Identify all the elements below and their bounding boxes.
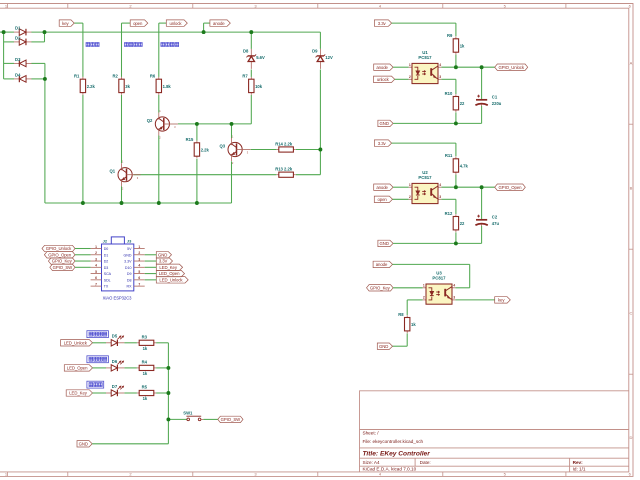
svg-text:R8: R8 [398,312,404,317]
svg-text:1: 1 [409,183,411,187]
svg-text:GND: GND [79,441,88,446]
diode D3 [14,62,19,64]
svg-text:GND: GND [158,252,167,257]
svg-text:LED_Key: LED_Key [69,391,88,396]
global label GND LED section [77,441,92,447]
svg-text:1k: 1k [143,396,148,401]
wire C2 top [481,187,483,219]
svg-text:D9: D9 [127,272,132,276]
svg-text:1: 1 [138,245,140,249]
resistor R2 3k [121,77,123,79]
svg-text:1: 1 [409,63,411,67]
global label LED_Open [64,365,92,371]
svg-text:5: 5 [138,270,140,274]
svg-text:220u: 220u [492,101,502,106]
resistor R14 2.2k [277,149,279,151]
wire Q1 base row to R13 [133,174,276,176]
svg-text:2: 2 [95,251,97,255]
svg-text:SCA: SCA [104,272,112,276]
wire LED_Key to D7 [93,392,107,394]
wire U3 pin3 to key [455,299,494,301]
resistor R9 1k [455,37,457,39]
junction dots left section [2,30,323,205]
svg-text:4: 4 [439,63,441,67]
wire D8 to R7 [250,70,252,77]
svg-text:D3: D3 [104,266,109,270]
wire Q1 emitter to rail [121,186,123,203]
svg-text:key: key [62,21,69,26]
wire R5 to bus [156,392,168,394]
wire rail corner to D9 [319,32,321,49]
svg-text:Rev:: Rev: [573,460,584,465]
svg-text:SW1: SW1 [183,410,193,415]
svg-text:47u: 47u [492,221,500,226]
resistor R12 22 [455,214,457,216]
wire R1 to rail [82,95,84,203]
global label anode U1 [374,64,393,70]
svg-text:PC817: PC817 [432,275,446,280]
wire SW1 to GPIO_SW [203,418,217,420]
wire R4 to bus [156,367,168,369]
wire J3 pin4 [145,266,157,268]
svg-text:R11: R11 [445,153,453,158]
svg-text:GPIO_Open: GPIO_Open [499,185,523,190]
resistor R11 4.7k [455,157,457,159]
wire unlock label stub [159,22,167,24]
svg-text:open: open [133,21,143,26]
wire R7 to base rail [250,95,252,124]
global label GND U3 [377,343,392,349]
wire J2 pin4 [75,266,91,268]
svg-text:D8: D8 [243,48,249,53]
wire unlock to U1 pin2 [395,78,409,80]
svg-text:A: A [630,61,633,66]
global label GND J3 [156,252,171,258]
svg-text:RX: RX [127,285,133,289]
svg-text:R13 2.2k: R13 2.2k [275,167,293,172]
wire U2 output row [441,186,494,188]
svg-text:4: 4 [95,264,97,268]
svg-text:3.3v: 3.3v [378,141,387,146]
wire J2 pin2 [75,254,91,256]
svg-text:GPIO_Unlock: GPIO_Unlock [46,246,72,251]
wire D7 to R5 [124,392,136,394]
svg-text:5V: 5V [127,247,132,251]
svg-text:LED_Unlock: LED_Unlock [159,278,183,283]
wire J3 pin5 [145,273,157,275]
global label open [130,20,148,26]
svg-text:anode: anode [376,262,388,267]
capacitor C1 220u [476,99,487,101]
global label LED_Key [66,390,92,396]
LED D7 [106,392,111,394]
connector J2 J3 XIAO ESP32C3 [102,244,134,291]
svg-text:File: ekeycontroller.kicad_sch: File: ekeycontroller.kicad_sch [363,439,424,444]
wire open to R2 [121,23,123,77]
global label LED_Unlock J3 [156,277,188,283]
svg-text:GPIO_SW: GPIO_SW [53,265,74,270]
svg-text:D9: D9 [312,48,318,53]
wire R9 to GPIO_Unlock row [455,55,457,68]
wire J2 pin1 [75,248,91,250]
svg-text:1: 1 [423,284,425,288]
wire LED bus vertical [167,343,169,444]
wire D2 row [4,41,14,43]
svg-text:GND: GND [380,241,389,246]
wire key label stub [74,22,83,24]
svg-text:TX: TX [104,285,109,289]
connector pin stubs and numbers [91,245,145,289]
svg-text:GND: GND [379,344,388,349]
wire U2 pin3 to R12 [441,198,456,200]
svg-text:1k: 1k [460,43,465,48]
wire D9 to R14 junction [319,70,321,175]
wire J2 pin3 [75,260,91,262]
global label GPIO_Open [495,184,526,190]
svg-text:C1: C1 [492,95,498,100]
svg-text:GPIO_Unlock: GPIO_Unlock [499,65,525,70]
svg-text:D0: D0 [104,247,109,251]
svg-text:J3: J3 [127,239,132,244]
svg-text:4: 4 [453,284,455,288]
wire U1 pin3 to R10 [441,78,456,80]
svg-text:D5: D5 [112,334,118,339]
wire J3 pin6 [145,279,157,281]
wire Q2 base rail [178,123,251,125]
svg-text:5.6V: 5.6V [256,55,265,60]
global label anode top [210,20,230,26]
svg-text:KiCad E.D.A. kicad 7.0.10: KiCad E.D.A. kicad 7.0.10 [363,466,417,471]
svg-text:2: 2 [423,296,425,300]
transistor Q2 [155,117,169,131]
svg-text:Q2: Q2 [147,118,153,123]
svg-text:R10: R10 [445,91,453,96]
wire anode to U2 pin1 [393,186,409,188]
svg-text:GND: GND [124,253,132,257]
wire R11 to GPIO_Open row [455,175,457,188]
global label GPIO_Key to J2 [48,258,75,264]
svg-text:SDL: SDL [104,278,111,282]
transistor Q1 [118,168,132,182]
svg-text:1.8k: 1.8k [163,84,172,89]
wire R8 to GND [406,333,408,346]
svg-text:3: 3 [453,296,455,300]
global label 3.3V J3 [156,258,172,264]
wire C1 bottom [481,106,483,123]
svg-text:2: 2 [409,195,411,199]
junction dots U2 [454,185,484,245]
wire emitter ground rail [45,202,232,204]
wire open to U2 pin2 [393,198,409,200]
note chinese boxed kai-suo-biao-shi [87,356,109,363]
global label GND U2 [378,240,393,246]
svg-text:C: C [629,311,632,316]
resistor R13 2.2k [277,174,279,176]
wire D5 to R3 [124,342,136,344]
wire open label stub [122,22,131,24]
global label key output [495,297,511,303]
svg-text:LED_Open: LED_Open [159,271,180,276]
resistor R15 2.2k [196,141,198,143]
wire R3 to bus [156,342,168,344]
wire R10 to GND row [455,112,457,123]
title block [360,391,629,472]
svg-text:LED_Open: LED_Open [67,366,88,371]
global label GPIO_Open to J2 [44,252,75,258]
resistor R3 1k [137,342,139,344]
svg-text:open: open [377,197,387,202]
wire anode label stub [204,22,210,24]
global label GPIO_Unlock to J2 [42,245,75,251]
wire R13 to D9 column [296,174,321,176]
svg-text:1k: 1k [143,346,148,351]
svg-text:D3: D3 [15,57,21,62]
svg-text:3: 3 [439,75,441,79]
svg-text:R7: R7 [242,74,248,79]
wire R15 to ground rail [196,159,198,203]
svg-text:unlock: unlock [377,77,390,82]
svg-text:GPIO_Key: GPIO_Key [52,259,73,264]
junction dots U1 [454,65,484,125]
svg-text:R1: R1 [74,74,80,79]
global label GPIO_SW to J2 [50,264,75,270]
note chinese boxed du-jie-suo [87,381,104,388]
svg-text:2.2k: 2.2k [201,147,210,152]
svg-text:D1: D1 [15,26,21,31]
svg-text:Q1: Q1 [110,169,116,174]
wire Q3 emitter to ground rail [231,161,233,203]
svg-text:R3: R3 [142,335,148,340]
note chinese jie-suo-biao-shi [161,43,179,47]
svg-text:J2: J2 [103,239,108,244]
svg-text:D2: D2 [104,260,109,264]
wire left bus vertical [3,32,5,79]
svg-text:6: 6 [95,276,97,280]
svg-text:D4: D4 [15,73,21,78]
svg-text:Id: 1/1: Id: 1/1 [573,466,586,471]
svg-text:1: 1 [95,245,97,249]
wire R6 to Q2 collector [158,95,160,113]
svg-text:R4: R4 [142,360,148,365]
svg-text:D8: D8 [127,278,132,282]
svg-text:22: 22 [460,221,465,226]
wire key to R1 [82,23,84,77]
svg-text:12V: 12V [325,55,333,60]
note chinese du-jie-suo [86,43,99,47]
global label GND U1 [378,120,393,126]
wire R14 to D9 column [296,149,321,151]
wire anode to U3 pin4 [393,263,470,265]
global label LED_Key J3 [156,264,182,270]
svg-text:anode: anode [213,21,225,26]
resistor R10 22 [455,94,457,96]
svg-text:R6: R6 [150,74,156,79]
svg-text:R14 2.2k: R14 2.2k [275,141,293,146]
wire U2 GND row [393,242,482,244]
svg-text:3: 3 [95,257,97,261]
svg-text:2.2k: 2.2k [87,84,96,89]
diode D2 [14,41,19,43]
wire D3-D4 vertical to ground rail [44,63,46,203]
global label GPIO_SW output [218,416,243,422]
svg-text:Sheet: /: Sheet: / [363,431,380,436]
global label open U2 [374,196,392,202]
resistor R4 1k [137,367,139,369]
wire D6 to R4 [124,367,136,369]
svg-text:2: 2 [138,251,140,255]
resistor R5 1k [137,392,139,394]
svg-text:6: 6 [138,276,140,280]
svg-text:GPIO_Open: GPIO_Open [48,252,72,257]
svg-text:4: 4 [138,264,140,268]
svg-text:anode: anode [376,185,388,190]
resistor R8 1k [406,315,408,317]
svg-text:XIAO ESP32C3: XIAO ESP32C3 [103,296,133,301]
svg-text:Date:: Date: [420,460,431,465]
svg-text:4: 4 [439,183,441,187]
svg-text:LED_Unlock: LED_Unlock [64,340,88,345]
svg-text:3: 3 [138,257,140,261]
capacitor C2 47u [476,219,487,221]
svg-text:B: B [630,186,633,191]
svg-text:Title: EKey Controller: Title: EKey Controller [363,450,431,457]
optocoupler U3 PC817 [423,287,426,289]
svg-text:Q3: Q3 [220,143,226,148]
resistor R7 10k [250,77,252,79]
svg-text:GND: GND [380,121,389,126]
global label LED_Open J3 [156,270,184,276]
wire GPIO_Key to U3 pin1 [393,287,423,289]
svg-text:4.7k: 4.7k [460,163,469,168]
svg-text:2: 2 [409,75,411,79]
optocoupler U1 PC817 [409,66,412,68]
svg-text:GPIO_SW: GPIO_SW [221,417,242,422]
global label anode U2 [374,184,393,190]
svg-text:7: 7 [138,282,140,286]
wire J3 pin3 [145,260,157,262]
svg-text:R2: R2 [113,74,119,79]
wire 3.3v to R9 [392,22,456,24]
wire R12 to GND row [455,232,457,243]
note chinese boxed jie-suo-biao-shi [87,331,109,338]
global label LED_Unlock [61,340,93,346]
wire D4 row [4,78,14,80]
svg-text:unlock: unlock [170,21,183,26]
wire J3 pin2 [145,254,157,256]
wire U3 pin2 to R8 [407,299,422,301]
global label GPIO_Key U3 [367,285,394,291]
svg-text:LED_Key: LED_Key [159,265,178,270]
svg-text:Size: A4: Size: A4 [363,460,380,465]
svg-text:3.3V: 3.3V [159,259,168,264]
optocoupler U2 PC817 [409,186,412,188]
svg-text:GPIO_Key: GPIO_Key [370,285,391,290]
svg-text:D: D [629,435,632,440]
wire rail to D8 [250,32,252,49]
wire GND row LED section [92,443,168,445]
diode D1 [14,31,19,33]
junction dots LED section [166,366,170,421]
svg-text:R5: R5 [142,385,148,390]
svg-text:D7: D7 [112,384,118,389]
svg-text:1k: 1k [143,371,148,376]
wire C2 bottom [481,226,483,243]
wire base rail to R15 [196,124,198,141]
svg-text:D10: D10 [125,266,132,270]
resistor R1 2.2k [82,77,84,79]
LED D6 [106,367,111,369]
wire LED_Unlock to D5 [93,342,107,344]
svg-text:key: key [498,298,505,303]
wire Q2 emitter to rail [158,136,160,204]
wire main anode rail [0,31,14,33]
svg-text:3.3v: 3.3v [378,21,387,26]
svg-text:10k: 10k [255,84,263,89]
svg-text:R15: R15 [186,137,194,142]
svg-text:3: 3 [439,195,441,199]
svg-text:22: 22 [460,101,465,106]
svg-text:D1: D1 [104,253,109,257]
svg-text:PC817: PC817 [418,175,432,180]
svg-text:PC817: PC817 [418,55,432,60]
LED D5 [106,342,111,344]
svg-text:R9: R9 [447,33,453,38]
diode D4 [14,78,19,80]
global label 3.3v U2 [374,140,391,146]
wire D3 row [4,62,14,64]
wire base rail to Q3 collector [231,124,233,138]
wire bus to SW1 [168,418,186,420]
wire U1 GND row [393,122,482,124]
wire U1 output row [441,66,494,68]
svg-text:R12: R12 [445,211,453,216]
svg-text:anode: anode [376,65,388,70]
svg-text:3.3V: 3.3V [124,260,132,264]
global label anode U3 [373,261,392,267]
svg-text:C2: C2 [492,215,498,220]
zener diode D8 5.6V [250,49,252,56]
note chinese kai-suo-biao-shi [125,43,143,47]
svg-text:7: 7 [95,282,97,286]
wire 3.3v to R11 [392,142,456,144]
wire C1 top [481,67,483,99]
resistor R6 1.8k [158,77,160,79]
wire unlock to R6 [158,23,160,77]
wire Q3 base to R14 [251,149,277,151]
svg-text:1k: 1k [411,322,416,327]
global label unlock [166,20,187,26]
svg-text:5: 5 [95,270,97,274]
wire R2 to Q1 collector [121,95,123,163]
global label 3.3v U1 [374,20,391,26]
wire anode to U1 pin1 [393,66,409,68]
transistor Q3 [228,142,242,156]
svg-text:3k: 3k [125,84,130,89]
svg-text:D2: D2 [15,36,21,41]
global label unlock U1 [374,76,395,82]
wire D2 to rail [44,32,46,42]
global label GPIO_Unlock [495,64,528,70]
global label key [59,20,74,26]
svg-text:D6: D6 [112,359,118,364]
wire LED_Open to D6 [93,367,107,369]
zener diode D9 12V [319,49,321,56]
